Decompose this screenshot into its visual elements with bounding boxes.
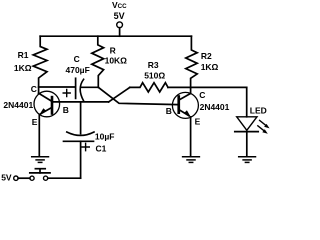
wire base Q1 [53, 101, 108, 103]
svg-text:10KΩ: 10KΩ [105, 56, 128, 66]
node A / wire diagonal node A to Q2 base [98, 87, 177, 104]
wire bottom rail to switch [48, 177, 81, 179]
svg-text:C: C [74, 54, 80, 64]
wire collector Q2 [190, 87, 192, 93]
resistor R1 [33, 36, 47, 93]
svg-text:B: B [63, 105, 69, 115]
ground under LED [239, 157, 256, 163]
wire diagonal Q1 base up to R3 net [109, 87, 130, 102]
svg-text:5V: 5V [114, 11, 125, 21]
C curved plate [80, 79, 83, 101]
capacitor C1 10uF [64, 102, 95, 178]
svg-text:1KΩ: 1KΩ [201, 62, 219, 72]
svg-text:C: C [31, 84, 37, 94]
svg-text:R2: R2 [201, 51, 212, 61]
wire collector Q1 to C left plate [39, 86, 75, 88]
power terminal Vcc [117, 22, 123, 36]
svg-text:E: E [195, 117, 201, 127]
svg-text:E: E [32, 117, 38, 127]
wire C1 bottom plate down [80, 141, 82, 178]
svg-text:2N4401: 2N4401 [3, 100, 33, 110]
transistor Q2 2N4401 [172, 92, 198, 118]
svg-text:R: R [110, 45, 116, 55]
svg-text:10µF: 10µF [95, 132, 115, 142]
wire emitter Q2 to ground [190, 117, 192, 156]
resistor R 10K [92, 36, 104, 87]
wire C right plate to node A [81, 86, 99, 88]
C1 straight plate [64, 140, 94, 142]
wire junction to LED branch [191, 86, 247, 88]
svg-text:R3: R3 [148, 60, 159, 70]
ground under Q2 [183, 157, 200, 163]
resistor R3 510 [130, 83, 168, 92]
transistor Q1 2N4401 [34, 91, 60, 117]
svg-text:LED: LED [250, 105, 267, 115]
LED light arrow 1 [260, 120, 270, 128]
wire LED branch down [246, 87, 248, 116]
wire top rail Vcc net [40, 35, 191, 37]
svg-text:1KΩ: 1KΩ [14, 63, 32, 73]
wire LED cathode to ground [246, 132, 248, 157]
capacitor C 470uF [39, 78, 99, 101]
plus sign of C1 [82, 143, 89, 150]
C plus plate [75, 78, 77, 98]
svg-text:C: C [199, 90, 205, 100]
LED light arrow 2 [258, 126, 268, 134]
power terminal 5V bottom [14, 176, 30, 180]
ground under Q1 [32, 157, 49, 163]
C1 curved plate [67, 132, 94, 135]
LED diode [235, 117, 258, 132]
svg-text:C1: C1 [96, 143, 107, 153]
svg-text:B: B [166, 106, 172, 116]
pushbutton switch S1 [30, 169, 50, 181]
plus sign of C [63, 90, 70, 97]
svg-text:VCC: VCC [112, 0, 127, 10]
svg-text:470µF: 470µF [66, 65, 90, 75]
svg-text:R1: R1 [18, 50, 29, 60]
wire R3 to collector junction of Q2 [168, 86, 191, 88]
svg-text:2N4401: 2N4401 [200, 102, 230, 112]
svg-text:510Ω: 510Ω [144, 70, 165, 80]
svg-text:5V: 5V [1, 172, 12, 182]
resistor R2 [186, 36, 197, 87]
wire emitter Q1 to ground [38, 115, 40, 157]
wire Q1 base to C1 top plate [80, 102, 82, 134]
